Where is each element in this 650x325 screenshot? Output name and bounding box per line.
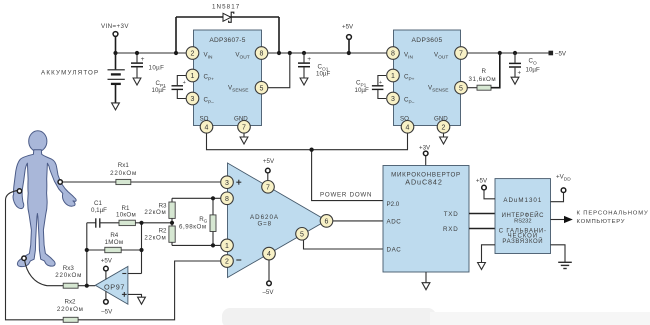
svg-text:6,98кОм: 6,98кОм <box>179 224 207 231</box>
svg-text:10µF: 10µF <box>355 87 369 94</box>
svg-text:ADuM1301: ADuM1301 <box>503 197 542 204</box>
svg-text:+5V: +5V <box>476 178 488 185</box>
svg-text:22кОм: 22кОм <box>144 235 166 242</box>
svg-text:R: R <box>482 68 487 75</box>
svg-text:4: 4 <box>267 251 271 258</box>
svg-text:5: 5 <box>300 231 304 238</box>
svg-text:ADP3605: ADP3605 <box>411 37 442 44</box>
svg-text:10µF: 10µF <box>149 65 165 72</box>
svg-text:G=8: G=8 <box>257 221 271 228</box>
svg-text:+: + <box>518 71 522 77</box>
svg-text:8: 8 <box>391 51 395 58</box>
svg-text:1: 1 <box>191 73 195 80</box>
svg-text:+5V: +5V <box>101 258 113 265</box>
svg-text:1: 1 <box>391 73 395 80</box>
svg-text:10µF: 10µF <box>316 71 330 78</box>
svg-text:ADC: ADC <box>387 218 402 225</box>
svg-text:Rx1: Rx1 <box>118 162 130 169</box>
svg-text:POWER DOWN: POWER DOWN <box>320 192 372 199</box>
svg-text:+: + <box>307 56 311 63</box>
svg-text:3: 3 <box>391 96 395 103</box>
svg-text:10µF: 10µF <box>526 67 540 74</box>
svg-text:7: 7 <box>266 184 270 191</box>
svg-text:+5V: +5V <box>342 24 354 31</box>
svg-text:VIN=+3V: VIN=+3V <box>101 23 129 30</box>
svg-text:220кОм: 220кОм <box>57 306 84 313</box>
svg-text:TXD: TXD <box>444 211 459 218</box>
svg-text:ADuC842: ADuC842 <box>405 177 442 186</box>
svg-text:10кОм: 10кОм <box>116 211 136 218</box>
svg-text:2: 2 <box>191 51 195 58</box>
svg-text:1МОм: 1МОм <box>105 239 124 246</box>
svg-text:RS232: RS232 <box>514 218 531 224</box>
svg-text:Rx2: Rx2 <box>64 299 76 306</box>
svg-text:АККУМУЛЯТОР: АККУМУЛЯТОР <box>41 70 99 77</box>
svg-text:1: 1 <box>225 243 229 250</box>
svg-text:GND: GND <box>234 116 248 123</box>
svg-text:0,1µF: 0,1µF <box>91 207 107 214</box>
svg-text:Rx3: Rx3 <box>63 265 75 272</box>
svg-text:–5V: –5V <box>555 51 567 58</box>
svg-text:220кОм: 220кОм <box>110 170 137 177</box>
svg-text:4: 4 <box>205 124 209 131</box>
svg-text:10µF: 10µF <box>152 87 166 94</box>
svg-text:5: 5 <box>260 85 264 92</box>
svg-text:3: 3 <box>225 180 229 187</box>
svg-text:6: 6 <box>325 219 329 226</box>
svg-text:31,6кОм: 31,6кОм <box>469 76 497 83</box>
svg-text:SO: SO <box>400 116 409 123</box>
svg-text:8: 8 <box>225 196 229 203</box>
svg-text:2: 2 <box>225 259 229 266</box>
svg-text:–5V: –5V <box>262 289 274 296</box>
svg-text:+5V: +5V <box>263 158 275 165</box>
svg-text:P2.0: P2.0 <box>387 201 400 208</box>
svg-text:OP97: OP97 <box>104 282 125 291</box>
svg-text:+: + <box>379 80 382 86</box>
svg-text:7: 7 <box>459 51 463 58</box>
svg-text:РАЗВЯЗКОЙ: РАЗВЯЗКОЙ <box>502 237 543 245</box>
svg-text:8: 8 <box>260 51 264 58</box>
svg-text:22кОм: 22кОм <box>144 209 166 216</box>
svg-text:GND: GND <box>434 116 448 123</box>
svg-text:КОМПЬЮТЕРУ: КОМПЬЮТЕРУ <box>577 219 626 225</box>
svg-text:SO: SO <box>200 116 209 123</box>
svg-text:–5V: –5V <box>101 308 113 315</box>
svg-text:220кОм: 220кОм <box>55 272 82 279</box>
svg-text:ADP3607-5: ADP3607-5 <box>209 37 245 44</box>
svg-text:+: + <box>183 80 186 86</box>
svg-text:7: 7 <box>242 124 246 131</box>
svg-text:R2: R2 <box>159 227 167 234</box>
svg-text:2: 2 <box>442 124 446 131</box>
svg-text:4: 4 <box>406 124 410 131</box>
svg-text:3: 3 <box>191 96 195 103</box>
svg-text:+: + <box>141 56 145 63</box>
svg-text:DAC: DAC <box>387 246 402 253</box>
svg-text:К ПЕРСОНАЛЬНОМУ: К ПЕРСОНАЛЬНОМУ <box>577 210 649 216</box>
svg-text:5: 5 <box>459 85 463 92</box>
svg-text:RXD: RXD <box>443 226 458 233</box>
svg-text:1N5817: 1N5817 <box>212 4 240 11</box>
